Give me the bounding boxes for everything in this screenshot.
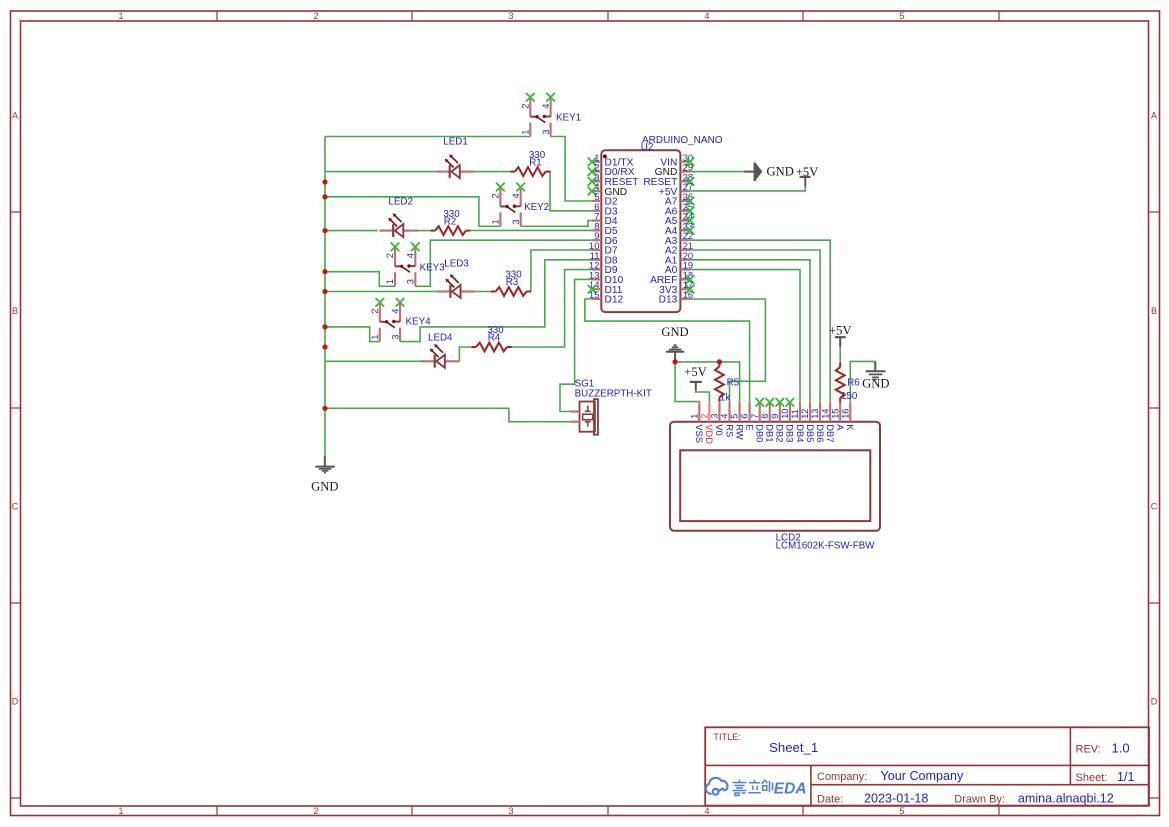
svg-text:2: 2 xyxy=(491,193,501,198)
svg-text:amina.alnaqbi.12: amina.alnaqbi.12 xyxy=(1018,792,1114,806)
svg-text:15: 15 xyxy=(589,290,600,301)
svg-text:3: 3 xyxy=(511,219,521,224)
svg-text:5: 5 xyxy=(730,414,740,419)
svg-text:7: 7 xyxy=(750,414,760,419)
svg-text:C: C xyxy=(1151,502,1158,512)
svg-text:GND: GND xyxy=(661,325,688,339)
svg-text:4: 4 xyxy=(390,309,400,314)
svg-text:BUZZERPTH-KIT: BUZZERPTH-KIT xyxy=(575,388,652,399)
svg-text:GND: GND xyxy=(767,165,794,179)
svg-text:B: B xyxy=(1151,306,1157,316)
svg-text:DB5: DB5 xyxy=(805,424,816,442)
svg-text:B: B xyxy=(12,306,18,316)
svg-text:Drawn By:: Drawn By: xyxy=(954,794,1005,806)
svg-text:14: 14 xyxy=(820,409,830,419)
svg-text:6: 6 xyxy=(740,414,750,419)
svg-text:A: A xyxy=(12,111,18,121)
svg-text:RS: RS xyxy=(724,424,735,437)
svg-text:K: K xyxy=(845,424,856,431)
svg-text:1: 1 xyxy=(118,806,123,816)
svg-text:Sheet_1: Sheet_1 xyxy=(769,740,818,755)
svg-text:Your Company: Your Company xyxy=(881,769,965,783)
svg-text:R3: R3 xyxy=(506,277,519,288)
svg-text:RW: RW xyxy=(734,424,745,440)
svg-text:4: 4 xyxy=(406,253,416,258)
svg-text:10: 10 xyxy=(780,409,790,419)
svg-text:D13: D13 xyxy=(659,295,678,306)
svg-text:5: 5 xyxy=(899,11,904,21)
svg-text:D: D xyxy=(1151,697,1158,707)
svg-text:4: 4 xyxy=(720,414,730,419)
svg-text:LCM1602K-FSW-FBW: LCM1602K-FSW-FBW xyxy=(776,541,876,552)
svg-text:1: 1 xyxy=(370,335,380,340)
svg-text:LED3: LED3 xyxy=(444,258,469,269)
svg-text:Sheet:: Sheet: xyxy=(1076,772,1108,784)
svg-text:LED4: LED4 xyxy=(428,332,453,343)
svg-text:KEY1: KEY1 xyxy=(556,112,581,123)
svg-text:GND: GND xyxy=(862,377,889,391)
svg-text:2: 2 xyxy=(385,253,395,258)
svg-text:KEY4: KEY4 xyxy=(406,317,432,328)
svg-text:R5: R5 xyxy=(727,378,740,389)
svg-text:16: 16 xyxy=(840,409,850,419)
svg-text:3: 3 xyxy=(406,279,416,284)
svg-text:R4: R4 xyxy=(488,333,501,344)
svg-text:KEY3: KEY3 xyxy=(420,263,446,274)
svg-text:ARDUINO_NANO: ARDUINO_NANO xyxy=(642,135,723,146)
svg-text:DB7: DB7 xyxy=(825,424,836,442)
svg-text:1: 1 xyxy=(491,219,501,224)
svg-text:E: E xyxy=(744,424,755,430)
svg-text:9: 9 xyxy=(770,414,780,419)
svg-text:1/1: 1/1 xyxy=(1117,770,1135,784)
svg-text:2: 2 xyxy=(521,104,531,109)
svg-text:3: 3 xyxy=(541,130,551,135)
svg-text:DB6: DB6 xyxy=(815,424,826,442)
svg-text:1.0: 1.0 xyxy=(1112,741,1130,756)
svg-text:150: 150 xyxy=(841,391,858,402)
svg-text:3: 3 xyxy=(390,335,400,340)
svg-text:GND: GND xyxy=(311,480,338,494)
svg-text:DB0: DB0 xyxy=(754,424,765,442)
svg-text:TITLE:: TITLE: xyxy=(713,732,741,742)
svg-text:DB1: DB1 xyxy=(765,424,776,442)
svg-text:4: 4 xyxy=(704,806,709,816)
svg-text:1: 1 xyxy=(689,414,699,419)
svg-text:Company:: Company: xyxy=(817,771,867,783)
svg-text:+5V: +5V xyxy=(829,323,852,337)
svg-text:REV:: REV: xyxy=(1076,744,1101,756)
svg-text:LED1: LED1 xyxy=(443,137,468,148)
svg-text:VDD: VDD xyxy=(704,424,715,444)
svg-text:3: 3 xyxy=(508,806,513,816)
svg-text:1: 1 xyxy=(521,130,531,135)
svg-text:2: 2 xyxy=(699,414,709,419)
svg-text:DB3: DB3 xyxy=(785,424,796,442)
svg-text:EDA: EDA xyxy=(774,781,807,798)
svg-text:LED2: LED2 xyxy=(388,196,413,207)
svg-text:1: 1 xyxy=(385,279,395,284)
svg-text:Date:: Date: xyxy=(817,794,843,806)
svg-text:R1: R1 xyxy=(529,157,542,168)
svg-text:12: 12 xyxy=(800,409,810,419)
svg-text:13: 13 xyxy=(810,409,820,419)
svg-text:8: 8 xyxy=(760,414,770,419)
svg-text:4: 4 xyxy=(511,193,521,198)
svg-text:R2: R2 xyxy=(444,216,457,227)
svg-text:D: D xyxy=(12,697,19,707)
svg-text:DB4: DB4 xyxy=(795,424,806,442)
svg-text:2: 2 xyxy=(370,309,380,314)
svg-text:11: 11 xyxy=(790,409,800,419)
svg-text:2: 2 xyxy=(313,806,318,816)
svg-text:A: A xyxy=(835,424,846,431)
svg-text:4: 4 xyxy=(541,104,551,109)
svg-text:16: 16 xyxy=(683,290,694,301)
svg-text:R6: R6 xyxy=(847,377,860,388)
svg-text:D12: D12 xyxy=(605,295,624,306)
svg-text:V0: V0 xyxy=(714,424,725,435)
svg-text:15: 15 xyxy=(830,409,840,419)
svg-text:2: 2 xyxy=(313,11,318,21)
svg-text:3: 3 xyxy=(508,11,513,21)
svg-text:DB2: DB2 xyxy=(775,424,786,442)
svg-text:3: 3 xyxy=(710,414,720,419)
svg-text:5: 5 xyxy=(899,806,904,816)
svg-text:KEY2: KEY2 xyxy=(524,202,549,213)
svg-text:4: 4 xyxy=(704,11,709,21)
svg-text:1: 1 xyxy=(118,11,123,21)
svg-text:+5V: +5V xyxy=(684,365,707,379)
svg-text:2023-01-18: 2023-01-18 xyxy=(864,792,928,806)
svg-text:VSS: VSS xyxy=(694,424,705,443)
svg-text:U2: U2 xyxy=(641,142,654,153)
svg-text:A: A xyxy=(1151,111,1157,121)
svg-text:C: C xyxy=(12,502,19,512)
svg-text:1k: 1k xyxy=(720,393,730,404)
